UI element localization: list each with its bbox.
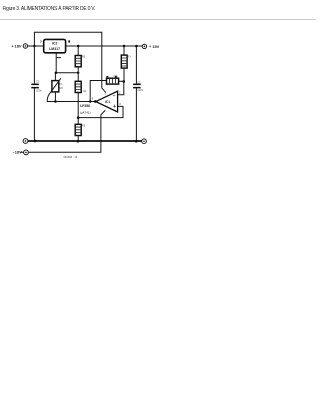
svg-text:+ 15V: + 15V [149,44,160,49]
svg-text:R2: R2 [83,90,87,93]
svg-text:2: 2 [119,90,121,94]
svg-text:(µA741): (µA741) [80,110,91,114]
svg-text:C2: C2 [36,80,40,84]
svg-text:C3: C3 [137,80,141,84]
svg-text:2k5: 2k5 [59,87,64,90]
svg-text:R3: R3 [127,55,131,58]
svg-text:+ 18V: + 18V [11,44,22,49]
svg-text:220n: 220n [137,88,143,92]
svg-text:IC2: IC2 [52,41,57,45]
svg-text:−: − [113,93,116,99]
svg-text:R1: R1 [82,55,86,58]
svg-text:3: 3 [40,40,42,44]
svg-text:220n: 220n [36,88,42,92]
svg-text:3: 3 [119,102,121,106]
svg-text:LF356: LF356 [80,104,90,108]
svg-text:LM317: LM317 [49,47,60,51]
svg-text:IC1: IC1 [105,100,110,104]
svg-text:+: + [113,104,116,110]
svg-text:P1: P1 [59,83,63,86]
svg-text:–18V: –18V [13,149,22,154]
svg-text:940068 - 13: 940068 - 13 [63,155,77,159]
svg-text:6: 6 [92,97,94,101]
svg-text:R5: R5 [82,125,86,128]
